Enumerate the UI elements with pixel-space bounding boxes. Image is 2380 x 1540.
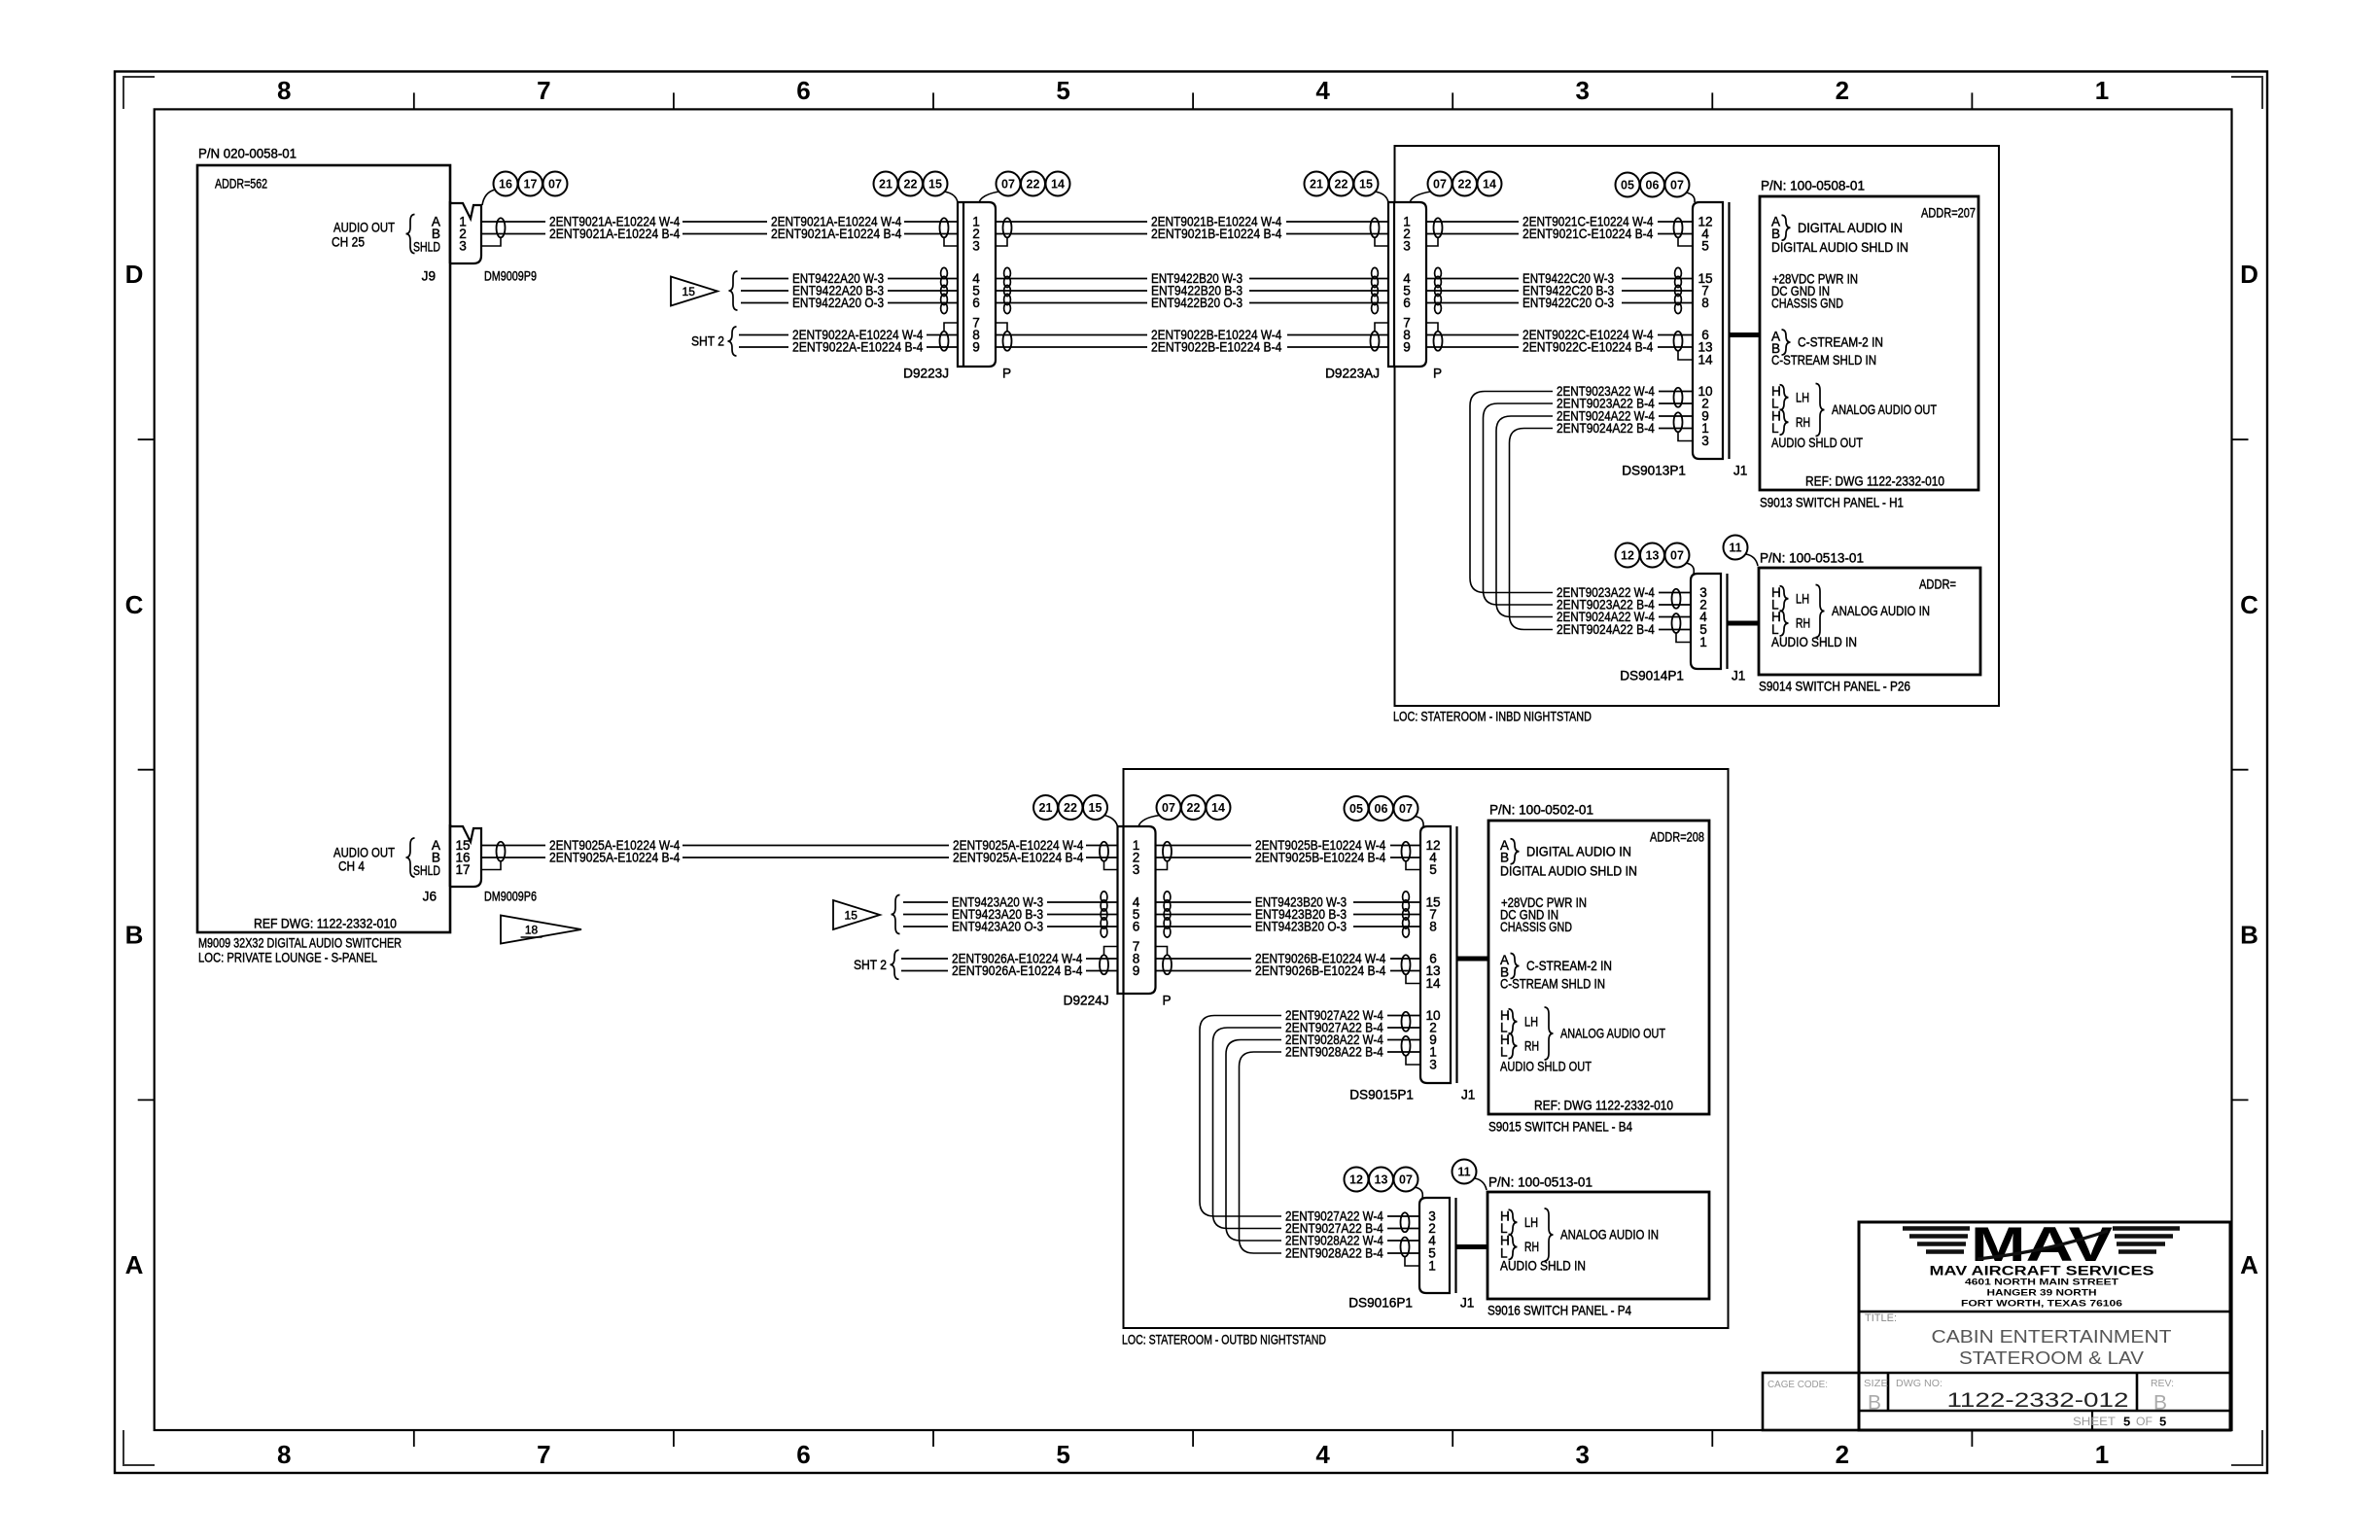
svg-text:SHEET: SHEET <box>2073 1415 2117 1428</box>
svg-text:S9016 SWITCH PANEL - P4: S9016 SWITCH PANEL - P4 <box>1487 1304 1631 1318</box>
svg-text:2ENT9026B-E10224 B-4: 2ENT9026B-E10224 B-4 <box>1255 963 1386 978</box>
svg-text:OF: OF <box>2136 1415 2152 1428</box>
svg-text:15: 15 <box>1359 178 1373 192</box>
svg-text:2ENT9024A22 B-4: 2ENT9024A22 B-4 <box>1557 421 1655 436</box>
svg-text:CABIN ENTERTAINMENT: CABIN ENTERTAINMENT <box>1932 1327 2172 1347</box>
wire 2ENT9022A-E10224 W-4 <box>739 334 788 336</box>
svg-text:ANALOG AUDIO IN: ANALOG AUDIO IN <box>1832 604 1930 618</box>
twisted triple symbol right of D9224J pins 4-6 <box>1164 892 1171 902</box>
twisted triple symbol at DS9013P1 pins 15-7-8 <box>1675 267 1682 278</box>
svg-text:ADDR=562: ADDR=562 <box>215 177 267 192</box>
svg-text:22: 22 <box>1187 801 1201 815</box>
svg-text:S9015 SWITCH PANEL - B4: S9015 SWITCH PANEL - B4 <box>1488 1120 1632 1135</box>
wire note callouts 21 22 15 at D9223AJ <box>1305 172 1329 196</box>
svg-text:07: 07 <box>1001 178 1015 192</box>
wire 2ENT9023A22 W-4 DS9013P1 to DS9014P1 loop <box>1470 392 1553 593</box>
shield splice right of D9223AJ pins 1-3 <box>1434 218 1443 237</box>
shield splice left of D9223J pins 8-9 <box>940 332 949 351</box>
wire 2ENT9021B-E10224 W-4 <box>996 221 1147 223</box>
svg-text:RH: RH <box>1524 1240 1539 1254</box>
svg-text:05: 05 <box>1621 179 1634 192</box>
svg-text:DIGITAL AUDIO IN: DIGITAL AUDIO IN <box>1798 221 1903 235</box>
shield splice at DS9013P1 pins 9-1 <box>1674 412 1683 432</box>
shield splice right of D9223J pins 8-9 <box>1003 332 1012 351</box>
wire note callouts 12 13 07 at DS9016P1 <box>1345 1168 1369 1192</box>
svg-text:6: 6 <box>972 296 980 310</box>
svg-text:P/N: 100-0502-01: P/N: 100-0502-01 <box>1489 803 1593 818</box>
shield splice right of D9224J pins 1-3 <box>1163 842 1172 861</box>
svg-text:J6: J6 <box>423 890 437 904</box>
wire 2ENT9026A-E10224 B-4 <box>901 970 948 972</box>
svg-text:REF: DWG 1122-2332-010: REF: DWG 1122-2332-010 <box>1534 1099 1673 1113</box>
shield splice at DS9013P1 pins 10-2 <box>1674 388 1683 407</box>
svg-text:C-STREAM SHLD IN: C-STREAM SHLD IN <box>1500 977 1605 992</box>
svg-text:MAV AIRCRAFT SERVICES: MAV AIRCRAFT SERVICES <box>1930 1264 2154 1278</box>
svg-text:C: C <box>2240 590 2258 619</box>
svg-text:AUDIO SHLD OUT: AUDIO SHLD OUT <box>1500 1060 1592 1074</box>
svg-text:21: 21 <box>1310 178 1323 192</box>
shield splice left of D9224J pins 8-9 <box>1100 955 1108 974</box>
svg-text:8: 8 <box>1701 296 1709 310</box>
shield splice at DM9009P6 <box>497 842 506 861</box>
svg-text:C-STREAM-2 IN: C-STREAM-2 IN <box>1526 959 1612 973</box>
svg-text:12: 12 <box>1349 1173 1363 1187</box>
svg-text:4: 4 <box>1315 1440 1330 1469</box>
svg-text:21: 21 <box>1039 801 1053 815</box>
svg-text:14: 14 <box>1211 801 1225 815</box>
connector D9223J <box>958 202 996 367</box>
twisted triple symbol left of D9223AJ pins 4-6 <box>1372 267 1379 278</box>
svg-text:3: 3 <box>459 239 467 254</box>
svg-text:TITLE:: TITLE: <box>1865 1312 1897 1324</box>
svg-text:DWG NO:: DWG NO: <box>1896 1378 1942 1389</box>
off-sheet flag triangle 15 upper <box>671 277 717 306</box>
wire note callouts 21 22 15 at D9224J <box>1033 795 1058 820</box>
svg-text:7: 7 <box>537 1440 550 1469</box>
connector DM9009P9 (J9) <box>450 203 481 263</box>
twisted triple symbol at DS9015P1 pins 15-7-8 <box>1403 892 1410 902</box>
wire ENT9422C20 O-3 <box>1426 302 1519 304</box>
wire note callouts 07 22 14 at D9223J P side <box>997 172 1021 196</box>
twisted triple symbol left of D9223J pins 4-6 <box>941 267 948 278</box>
svg-text:ANALOG AUDIO OUT: ANALOG AUDIO OUT <box>1560 1027 1665 1041</box>
svg-text:16: 16 <box>499 178 512 192</box>
svg-text:8: 8 <box>277 76 291 105</box>
svg-text:LH: LH <box>1524 1014 1538 1029</box>
svg-text:1: 1 <box>1428 1259 1436 1274</box>
shield splice left of D9224J pins 1-3 <box>1100 842 1108 861</box>
twisted triple symbol left of D9224J pins 4-6 <box>1101 892 1107 902</box>
svg-text:ANALOG AUDIO IN: ANALOG AUDIO IN <box>1560 1228 1659 1242</box>
svg-text:6: 6 <box>1133 920 1140 934</box>
svg-text:15: 15 <box>928 178 942 192</box>
off-sheet flag triangle 18 <box>501 916 581 944</box>
svg-text:2ENT9028A22 B-4: 2ENT9028A22 B-4 <box>1285 1045 1383 1060</box>
svg-text:8: 8 <box>277 1440 291 1469</box>
wire ENT9422B20 B-3 <box>996 290 1147 292</box>
wire ENT9422B20 O-3 <box>996 302 1147 304</box>
svg-text:3: 3 <box>972 239 980 254</box>
svg-text:J1: J1 <box>1732 669 1745 683</box>
svg-text:CAGE CODE:: CAGE CODE: <box>1767 1379 1828 1390</box>
wire 2ENT9023A22 B-4 DS9013P1 to DS9014P1 loop <box>1484 403 1554 605</box>
wire 2ENT9021B-E10224 B-4 <box>996 233 1147 235</box>
shield splice at DS9015P1 pins 10-2 <box>1402 1012 1411 1032</box>
svg-text:STATEROOM & LAV: STATEROOM & LAV <box>1959 1348 2144 1368</box>
svg-text:ENT9422C20 O-3: ENT9422C20 O-3 <box>1522 296 1614 310</box>
wire ENT9423B20 W-3 <box>1156 901 1252 903</box>
svg-text:J9: J9 <box>422 269 436 284</box>
svg-text:C-STREAM-2 IN: C-STREAM-2 IN <box>1798 335 1883 350</box>
svg-text:14: 14 <box>1051 178 1065 192</box>
svg-text:D: D <box>2240 260 2258 289</box>
svg-text:LH: LH <box>1796 390 1809 404</box>
svg-text:SHT 2: SHT 2 <box>691 334 724 349</box>
svg-text:1122-2332-012: 1122-2332-012 <box>1947 1388 2129 1412</box>
wire 2ENT9028A22 B-4 DS9015P1 to DS9016P1 loop <box>1240 1052 1282 1253</box>
shield splice at DS9013P1 pins 6-13 <box>1674 332 1683 351</box>
connector DM9009P6 (J6) <box>450 826 481 887</box>
svg-text:5: 5 <box>2123 1415 2130 1429</box>
wire 2ENT9025B-E10224 W-4 <box>1156 845 1252 847</box>
svg-text:22: 22 <box>1335 178 1348 192</box>
svg-text:FORT WORTH, TEXAS 76106: FORT WORTH, TEXAS 76106 <box>1961 1299 2122 1310</box>
connector DS9015P1 <box>1420 826 1451 1083</box>
svg-text:17: 17 <box>524 178 538 192</box>
svg-text:ADDR=207: ADDR=207 <box>1921 206 1976 221</box>
svg-text:J1: J1 <box>1460 1296 1474 1311</box>
svg-text:2ENT9024A22 B-4: 2ENT9024A22 B-4 <box>1557 622 1655 637</box>
connector D9224J <box>1118 826 1156 994</box>
switch panel S9013 box (P/N 100-0508-01, ADDR=207) <box>1760 196 1978 490</box>
wire 2ENT9022B-E10224 W-4 <box>996 334 1147 336</box>
svg-text:SHLD: SHLD <box>413 863 440 878</box>
svg-text:14: 14 <box>1483 178 1496 192</box>
shield splice right of D9224J pins 8-9 <box>1163 955 1172 974</box>
svg-text:1: 1 <box>2095 76 2109 105</box>
svg-text:22: 22 <box>904 178 918 192</box>
shield splice at DS9015P1 pins 9-1 <box>1402 1036 1411 1056</box>
svg-text:1: 1 <box>2095 1440 2109 1469</box>
twisted triple symbol right of D9223J pins 4-6 <box>1004 267 1011 278</box>
wire ENT9422C20 W-3 <box>1426 278 1519 280</box>
shield splice at DS9014P1 pins 4-5 <box>1672 613 1681 633</box>
svg-text:P/N 020-0058-01: P/N 020-0058-01 <box>198 147 297 161</box>
svg-text:2ENT9021A-E10224 B-4: 2ENT9021A-E10224 B-4 <box>549 227 681 241</box>
svg-text:5: 5 <box>1056 1440 1069 1469</box>
svg-text:S9013 SWITCH PANEL - H1: S9013 SWITCH PANEL - H1 <box>1760 496 1904 510</box>
svg-text:P/N: 100-0513-01: P/N: 100-0513-01 <box>1760 551 1864 566</box>
shield splice at DM9009P9 <box>497 218 506 237</box>
svg-text:RH: RH <box>1524 1038 1539 1053</box>
svg-text:SHT 2: SHT 2 <box>854 958 887 972</box>
wire ENT9422A20 O-3 <box>741 302 788 304</box>
shield splice left of D9223AJ pins 1-3 <box>1371 218 1380 237</box>
wire 2ENT9025A-E10224 B-4 <box>481 857 545 858</box>
svg-text:22: 22 <box>1027 178 1040 192</box>
svg-text:07: 07 <box>1162 801 1175 815</box>
svg-text:9: 9 <box>972 340 980 355</box>
wire 2ENT9022C-E10224 B-4 <box>1426 346 1519 348</box>
svg-text:2: 2 <box>1836 1440 1849 1469</box>
wire ENT9423B20 B-3 <box>1156 914 1252 916</box>
wire ENT9423A20 O-3 <box>903 926 948 927</box>
wire 2ENT9027A22 W-4 DS9015P1 to DS9016P1 loop <box>1200 1016 1281 1217</box>
connector DS9014P1 <box>1691 574 1721 669</box>
svg-text:CH 4: CH 4 <box>338 859 365 874</box>
svg-text:07: 07 <box>548 178 562 192</box>
note callout 11 at S9014 <box>1724 536 1748 560</box>
wire note callouts 07 22 14 at D9224J P side <box>1157 795 1181 820</box>
shield splice left of D9223AJ pins 8-9 <box>1371 332 1380 351</box>
svg-text:A: A <box>2240 1250 2258 1279</box>
svg-text:B: B <box>1500 851 1509 865</box>
bus DS9015P1 J1 to S9015 <box>1457 957 1489 962</box>
svg-text:L: L <box>1771 421 1779 436</box>
wire 2ENT9022B-E10224 B-4 <box>996 346 1147 348</box>
svg-text:6: 6 <box>1403 296 1411 310</box>
wire note callouts 05 06 07 at DS9013P1 <box>1616 173 1640 197</box>
svg-text:14: 14 <box>1697 353 1713 367</box>
svg-text:9: 9 <box>1403 340 1411 355</box>
svg-text:ENT9423A20 O-3: ENT9423A20 O-3 <box>952 920 1043 934</box>
svg-text:22: 22 <box>1458 178 1472 192</box>
wire note callouts 16 17 07 at DM9009P9 <box>494 172 518 196</box>
svg-text:J1: J1 <box>1461 1088 1475 1102</box>
wire 2ENT9021A-E10224 B-4 <box>481 233 545 235</box>
wire 2ENT9024A22 B-4 DS9013P1 to DS9014P1 loop <box>1510 429 1554 630</box>
svg-text:M9009 32X32 DIGITAL AUDIO SWIT: M9009 32X32 DIGITAL AUDIO SWITCHER <box>198 936 402 951</box>
bus DS9016P1 J1 to S9016 <box>1456 1244 1488 1249</box>
svg-text:SHLD: SHLD <box>413 240 440 255</box>
svg-text:RH: RH <box>1796 616 1810 631</box>
shield splice at DS9015P1 pins 6-13 <box>1402 955 1411 974</box>
wire 2ENT9022A-E10224 B-4 <box>739 346 788 348</box>
svg-text:07: 07 <box>1399 1173 1413 1187</box>
wire ENT9422A20 B-3 <box>741 290 788 292</box>
svg-text:P/N: 100-0513-01: P/N: 100-0513-01 <box>1488 1175 1592 1190</box>
svg-text:2ENT9025A-E10224 B-4: 2ENT9025A-E10224 B-4 <box>953 851 1084 865</box>
wire note callouts 05 06 07 at DS9015P1 <box>1345 796 1369 821</box>
svg-text:2ENT9021C-E10224 B-4: 2ENT9021C-E10224 B-4 <box>1522 227 1654 241</box>
svg-text:5: 5 <box>1701 239 1709 254</box>
shield splice right of D9223AJ pins 8-9 <box>1434 332 1443 351</box>
shield splice at DS9015P1 pins 12-4 <box>1402 842 1411 861</box>
svg-text:LOC: STATEROOM - OUTBD NIGHT: LOC: STATEROOM - OUTBD NIGHTSTAND <box>1122 1333 1326 1347</box>
svg-text:15: 15 <box>682 285 696 298</box>
svg-text:D: D <box>125 260 144 289</box>
svg-text:11: 11 <box>1729 542 1741 555</box>
svg-text:P/N: 100-0508-01: P/N: 100-0508-01 <box>1761 179 1865 193</box>
svg-text:7: 7 <box>537 76 550 105</box>
svg-text:07: 07 <box>1670 179 1684 192</box>
svg-text:8: 8 <box>1429 920 1437 934</box>
bus DS9013P1 J1 to S9013 <box>1730 332 1761 337</box>
svg-text:2ENT9022B-E10224 B-4: 2ENT9022B-E10224 B-4 <box>1151 340 1282 355</box>
svg-text:ANALOG AUDIO OUT: ANALOG AUDIO OUT <box>1832 402 1937 417</box>
svg-text:B: B <box>2153 1392 2167 1415</box>
svg-text:5: 5 <box>1429 862 1437 877</box>
svg-text:B: B <box>1868 1392 1881 1415</box>
svg-text:ENT9422A20 O-3: ENT9422A20 O-3 <box>792 296 884 310</box>
svg-text:DS9014P1: DS9014P1 <box>1620 669 1684 683</box>
svg-text:B: B <box>2240 921 2258 950</box>
connector D9223AJ <box>1388 202 1426 367</box>
svg-text:S9014 SWITCH PANEL - P26: S9014 SWITCH PANEL - P26 <box>1759 680 1910 694</box>
svg-text:DM9009P9: DM9009P9 <box>484 269 537 284</box>
svg-text:P: P <box>1163 994 1172 1008</box>
wire note callouts 12 13 07 at DS9014P1 <box>1616 543 1640 568</box>
svg-text:2ENT9021A-E10224 B-4: 2ENT9021A-E10224 B-4 <box>771 227 902 241</box>
wire ENT9422B20 W-3 <box>996 278 1147 280</box>
svg-text:12: 12 <box>1621 549 1634 563</box>
shield splice left of D9223J pins 1-3 <box>940 218 949 237</box>
svg-text:15: 15 <box>1089 801 1102 815</box>
shield splice at DS9016P1 pins 3-2 <box>1401 1212 1410 1232</box>
enclosure box LOC: STATEROOM - INBD NIGHTSTAND <box>1395 146 2000 706</box>
svg-text:2ENT9021B-E10224 B-4: 2ENT9021B-E10224 B-4 <box>1151 227 1282 241</box>
connector DS9016P1 <box>1419 1198 1450 1293</box>
svg-text:REF: DWG 1122-2332-010: REF: DWG 1122-2332-010 <box>1805 474 1944 489</box>
svg-text:6: 6 <box>796 76 810 105</box>
enclosure box LOC: STATEROOM - OUTBD NIGHTSTAND <box>1124 769 1729 1328</box>
wire 2ENT9025B-E10224 B-4 <box>1156 857 1252 858</box>
svg-text:LOC: STATEROOM - INBD NIGHTS: LOC: STATEROOM - INBD NIGHTSTAND <box>1393 710 1592 724</box>
svg-text:07: 07 <box>1433 178 1447 192</box>
svg-text:L: L <box>1500 1045 1508 1060</box>
wire 2ENT9021C-E10224 W-4 <box>1426 221 1519 223</box>
note callout 11 at S9016 <box>1452 1160 1477 1184</box>
svg-text:LH: LH <box>1796 591 1809 606</box>
switch panel S9016 box (P/N 100-0513-01) <box>1487 1192 1709 1299</box>
twisted triple symbol right of D9223AJ pins 4-6 <box>1435 267 1442 278</box>
title block frame <box>1859 1222 2230 1430</box>
wire 2ENT9022C-E10224 W-4 <box>1426 334 1519 336</box>
svg-text:HANGER 39 NORTH: HANGER 39 NORTH <box>1987 1288 2097 1299</box>
svg-text:2ENT9028A22 B-4: 2ENT9028A22 B-4 <box>1285 1246 1383 1261</box>
svg-text:DM9009P6: DM9009P6 <box>484 890 537 904</box>
svg-text:2ENT9022A-E10224 B-4: 2ENT9022A-E10224 B-4 <box>792 340 924 355</box>
svg-text:14: 14 <box>1425 976 1441 991</box>
svg-text:4: 4 <box>1315 76 1330 105</box>
svg-text:3: 3 <box>1576 76 1590 105</box>
svg-text:LOC: PRIVATE LOUNGE - S-PANEL: LOC: PRIVATE LOUNGE - S-PANEL <box>198 951 377 965</box>
svg-text:CH 25: CH 25 <box>332 235 365 250</box>
svg-text:DS9015P1: DS9015P1 <box>1349 1088 1414 1102</box>
svg-text:DS9013P1: DS9013P1 <box>1622 464 1686 478</box>
svg-text:AUDIO SHLD OUT: AUDIO SHLD OUT <box>1771 436 1863 450</box>
svg-text:07: 07 <box>1670 549 1684 563</box>
shield splice at DS9014P1 pins 3-2 <box>1672 589 1681 609</box>
svg-text:13: 13 <box>1375 1173 1388 1187</box>
svg-text:ADDR=: ADDR= <box>1919 577 1956 592</box>
svg-text:05: 05 <box>1349 802 1363 816</box>
wire note callouts 21 22 15 at D9223J <box>874 172 898 196</box>
svg-text:P: P <box>1433 367 1442 381</box>
svg-text:REF DWG: 1122-2332-010: REF DWG: 1122-2332-010 <box>254 917 397 931</box>
svg-text:07: 07 <box>1399 802 1413 816</box>
svg-text:5: 5 <box>2159 1415 2166 1429</box>
svg-text:DIGITAL AUDIO SHLD IN: DIGITAL AUDIO SHLD IN <box>1500 864 1637 879</box>
svg-text:4601 NORTH MAIN STREET: 4601 NORTH MAIN STREET <box>1965 1277 2118 1288</box>
wire 2ENT9027A22 B-4 DS9015P1 to DS9016P1 loop <box>1213 1028 1282 1229</box>
connector DS9013P1 <box>1693 202 1723 459</box>
svg-text:AUDIO SHLD IN: AUDIO SHLD IN <box>1500 1259 1586 1274</box>
svg-text:18: 18 <box>525 924 539 937</box>
svg-text:D9223J: D9223J <box>903 367 949 381</box>
wire 2ENT9025A-E10224 W-4 <box>481 845 545 847</box>
svg-text:B: B <box>125 921 144 950</box>
wire ENT9422C20 B-3 <box>1426 290 1519 292</box>
svg-text:A: A <box>125 1250 144 1279</box>
wire 2ENT9024A22 W-4 DS9013P1 to DS9014P1 loop <box>1496 416 1553 617</box>
svg-text:11: 11 <box>1457 1166 1470 1179</box>
svg-text:AUDIO OUT: AUDIO OUT <box>333 221 395 235</box>
svg-text:3: 3 <box>1701 434 1709 448</box>
svg-text:J1: J1 <box>1733 464 1747 478</box>
wire 2ENT9026B-E10224 W-4 <box>1156 958 1252 960</box>
svg-text:13: 13 <box>1646 549 1660 563</box>
svg-text:21: 21 <box>879 178 892 192</box>
svg-text:SIZE: SIZE <box>1864 1378 1888 1389</box>
svg-text:LH: LH <box>1524 1215 1538 1230</box>
wire ENT9423B20 O-3 <box>1156 926 1252 927</box>
svg-text:REV:: REV: <box>2151 1378 2174 1389</box>
svg-text:22: 22 <box>1064 801 1077 815</box>
svg-text:ENT9423B20 O-3: ENT9423B20 O-3 <box>1255 920 1347 934</box>
wire 2ENT9021A-E10224 W-4 <box>481 221 545 223</box>
svg-text:DIGITAL AUDIO SHLD IN: DIGITAL AUDIO SHLD IN <box>1771 240 1908 255</box>
svg-text:3: 3 <box>1429 1058 1437 1072</box>
svg-text:ENT9422B20 O-3: ENT9422B20 O-3 <box>1151 296 1242 310</box>
shield splice at DS9013P1 pins 12-4 <box>1674 218 1683 237</box>
svg-text:AUDIO SHLD IN: AUDIO SHLD IN <box>1771 635 1857 649</box>
wire 2ENT9026A-E10224 W-4 <box>901 958 948 960</box>
switch panel S9014 box (P/N 100-0513-01) <box>1759 568 1980 675</box>
svg-text:CHASSIS GND: CHASSIS GND <box>1500 920 1572 934</box>
wire 2ENT9026B-E10224 B-4 <box>1156 970 1252 972</box>
wire ENT9422A20 W-3 <box>741 278 788 280</box>
svg-text:D9223AJ: D9223AJ <box>1325 367 1380 381</box>
svg-text:2ENT9022C-E10224 B-4: 2ENT9022C-E10224 B-4 <box>1522 340 1654 355</box>
svg-text:CHASSIS GND: CHASSIS GND <box>1771 297 1843 311</box>
svg-text:2ENT9026A-E10224 B-4: 2ENT9026A-E10224 B-4 <box>952 963 1083 978</box>
svg-text:6: 6 <box>796 1440 810 1469</box>
wire note callouts 07 22 14 at D9223AJ P side <box>1428 172 1452 196</box>
svg-text:2ENT9025A-E10224 B-4: 2ENT9025A-E10224 B-4 <box>549 851 681 865</box>
svg-text:2: 2 <box>1836 76 1849 105</box>
off-sheet flag triangle 15 lower <box>833 900 880 929</box>
svg-text:P: P <box>1002 367 1011 381</box>
svg-text:9: 9 <box>1133 963 1140 978</box>
switch panel S9015 box (P/N 100-0502-01, ADDR=208) <box>1488 821 1709 1114</box>
svg-text:3: 3 <box>1133 862 1140 877</box>
svg-text:RH: RH <box>1796 415 1810 430</box>
svg-text:3: 3 <box>1403 239 1411 254</box>
shield splice right of D9223J pins 1-3 <box>1003 218 1012 237</box>
svg-text:15: 15 <box>845 909 858 923</box>
svg-text:5: 5 <box>1056 76 1069 105</box>
wire 2ENT9028A22 W-4 DS9015P1 to DS9016P1 loop <box>1226 1040 1281 1242</box>
svg-text:DS9016P1: DS9016P1 <box>1348 1296 1413 1311</box>
svg-text:C: C <box>125 590 144 619</box>
audio switcher M9009 box (P/N 020-0058-01, ADDR=562) <box>197 165 450 932</box>
wire ENT9423A20 W-3 <box>903 901 948 903</box>
wire ENT9423A20 B-3 <box>903 914 948 916</box>
svg-text:2ENT9025B-E10224 B-4: 2ENT9025B-E10224 B-4 <box>1255 851 1386 865</box>
wire 2ENT9021C-E10224 B-4 <box>1426 233 1519 235</box>
svg-text:3: 3 <box>1576 1440 1590 1469</box>
